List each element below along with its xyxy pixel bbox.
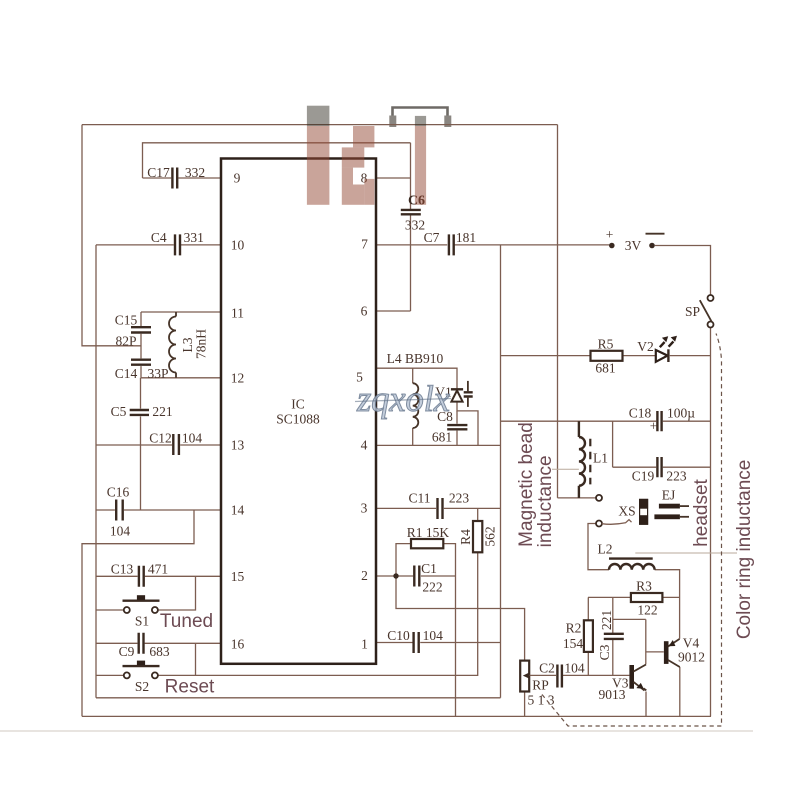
varicap V1 BB910 — [435, 381, 472, 407]
wire V4 base link — [646, 651, 664, 653]
capacitor C12 — [149, 430, 202, 455]
svg-text:C9: C9 — [119, 644, 135, 659]
svg-text:683: 683 — [149, 644, 170, 659]
watermark KT pink blocks — [307, 106, 426, 205]
wire pin15 C13 — [96, 575, 221, 577]
capacitor C4 — [151, 230, 204, 255]
wire x557 rail antenna line down to L1 bottom — [557, 125, 559, 498]
svg-text:1: 1 — [361, 636, 368, 651]
svg-text:S2: S2 — [135, 679, 149, 694]
wire pin2 to C1 — [376, 575, 456, 577]
svg-text:223: 223 — [449, 491, 470, 506]
battery 3V — [606, 227, 665, 253]
wire pin6 — [376, 310, 411, 312]
wire pin10 to C4 — [96, 244, 221, 246]
wire pin2 node down to RP top — [396, 576, 525, 661]
wire pin11 — [141, 311, 221, 313]
svg-text:14: 14 — [231, 503, 245, 518]
wire L1 bottom to XS tip — [558, 497, 597, 499]
node pin2 junction dot — [393, 573, 398, 578]
svg-text:7: 7 — [361, 237, 368, 252]
wire C8 stems — [456, 411, 458, 446]
wire pin16 C9 — [96, 642, 221, 644]
wire C18 line — [501, 420, 712, 422]
svg-text:33P: 33P — [147, 366, 168, 381]
resistor R4 — [458, 521, 498, 552]
capacitor C1 — [414, 561, 442, 595]
svg-text:C1: C1 — [421, 561, 437, 576]
wire C3 to V3 collector link — [613, 618, 646, 620]
capacitor C7 — [424, 230, 477, 255]
svg-text:L2: L2 — [598, 542, 613, 557]
svg-text:C4: C4 — [151, 230, 167, 245]
svg-text:EJ: EJ — [662, 488, 676, 503]
wire RP wiper to C2 — [532, 674, 630, 676]
capacitor C17 — [147, 165, 205, 189]
svg-text:V4: V4 — [683, 636, 700, 651]
svg-text:R5: R5 — [598, 337, 614, 352]
switch S1 — [123, 595, 160, 628]
svg-text:+: + — [650, 419, 658, 434]
watermark zqxolx — [355, 379, 451, 420]
svg-text:C17: C17 — [147, 165, 170, 180]
wire pin13 C12 — [96, 444, 221, 446]
resistor R5 — [591, 337, 623, 376]
capacitor C19 — [632, 457, 687, 483]
wire L1 top stem — [578, 421, 580, 424]
svg-text:104: 104 — [423, 628, 444, 643]
resistor R3 — [631, 579, 663, 618]
wire L2 right to V4 emitter rail — [655, 570, 680, 639]
label color ring inductance — [635, 460, 755, 640]
wire pin14 ground link — [82, 510, 194, 716]
svg-text:C5: C5 — [111, 404, 127, 419]
svg-text:Color ring inductance: Color ring inductance — [734, 460, 755, 640]
transistor V3 9013 — [599, 665, 647, 702]
capacitor C5 — [111, 404, 173, 419]
wire top loop pin9 over IC to C6 — [143, 143, 411, 178]
wire bottom jumper y698 to x500 rail — [96, 697, 501, 699]
magnetic bead inductor L1 — [579, 421, 608, 498]
wire C18/C19 left link — [612, 421, 614, 467]
svg-text:headset: headset — [691, 478, 712, 546]
svg-text:681: 681 — [432, 430, 452, 445]
svg-text:C19: C19 — [632, 468, 655, 483]
svg-text:122: 122 — [637, 603, 657, 618]
inductor L3 — [169, 312, 209, 378]
wire R2 top stem — [587, 597, 589, 620]
dashed gang link RP to SP — [542, 334, 722, 727]
wire S1 link vertical — [158, 576, 196, 610]
svg-text:471: 471 — [148, 562, 168, 577]
capacitor C13 — [111, 562, 168, 587]
svg-text:222: 222 — [422, 580, 442, 595]
svg-text:11: 11 — [231, 306, 244, 321]
svg-text:221: 221 — [599, 610, 614, 630]
svg-text:4: 4 — [361, 438, 368, 453]
wire R5 to V2 — [623, 355, 656, 357]
wire R3 left node — [588, 596, 631, 598]
wire tank vertical x141 C15/C14 — [140, 312, 142, 378]
resistor R1 — [407, 525, 450, 548]
wire C5 chain x140.5 pin12 to pin14 — [140, 378, 142, 510]
transistor V4 9012 — [664, 636, 705, 667]
wire C6 vertical lower stem to pin6 — [410, 215, 412, 311]
wire R3 right link — [662, 596, 679, 598]
svg-text:XS: XS — [618, 504, 635, 519]
wire V2 to SP rail — [670, 355, 711, 357]
wire pin4 — [376, 444, 501, 446]
inductor L4 — [387, 351, 444, 428]
svg-text:L1: L1 — [593, 451, 608, 466]
svg-text:3V: 3V — [625, 238, 642, 253]
wire varactor bottom node — [457, 402, 478, 445]
svg-text:C10: C10 — [387, 628, 410, 643]
svg-text:181: 181 — [456, 230, 476, 245]
svg-text:78nH: 78nH — [194, 329, 209, 359]
wire SP to V2 junction — [710, 327, 712, 716]
svg-text:C2: C2 — [539, 661, 555, 676]
svg-text:681: 681 — [595, 361, 615, 376]
LED V2 — [637, 336, 677, 362]
svg-text:S1: S1 — [135, 614, 149, 629]
svg-text:C18: C18 — [629, 406, 652, 421]
wire C6 vertical upper stem — [410, 143, 412, 209]
svg-text:C16: C16 — [107, 485, 130, 500]
antenna — [389, 108, 451, 128]
svg-text:12: 12 — [231, 370, 245, 385]
wire V3 emitter down — [645, 692, 647, 717]
svg-text:R1 15K: R1 15K — [407, 525, 450, 540]
wire left rail x96 from C4 down to bottom corner — [95, 245, 97, 698]
wire R4 top stub — [477, 508, 479, 521]
svg-text:154: 154 — [563, 636, 584, 651]
headset plug EJ — [654, 488, 689, 520]
capacitor C16 — [107, 485, 131, 539]
svg-text:332: 332 — [405, 218, 425, 233]
wire RP bottom stem — [524, 692, 526, 717]
svg-text:223: 223 — [666, 468, 687, 483]
capacitor C18 — [629, 406, 695, 434]
svg-text:82P: 82P — [115, 334, 136, 349]
wire R1 loop — [396, 544, 456, 717]
potentiometer RP — [520, 661, 555, 708]
wire antenna left drop to C15/C14 node — [82, 125, 141, 346]
capacitor C11 — [408, 491, 469, 520]
svg-text:2: 2 — [361, 568, 368, 583]
label magnetic bead inductance — [516, 422, 579, 547]
svg-text:V2: V2 — [637, 339, 654, 354]
wire x500 rail C7 down to bottom jumper — [500, 245, 502, 698]
capacitor C10 — [387, 628, 443, 653]
svg-text:R2: R2 — [566, 620, 582, 635]
jack XS contacts — [596, 495, 648, 527]
wire pin14 C16 — [96, 509, 221, 511]
svg-text:Reset: Reset — [165, 676, 215, 697]
svg-text:9012: 9012 — [678, 649, 705, 664]
svg-text:13: 13 — [231, 438, 245, 453]
capacitor C3 — [597, 610, 624, 661]
svg-text:SC1088: SC1088 — [276, 412, 320, 427]
capacitor C15 — [115, 313, 151, 349]
svg-text:C15: C15 — [115, 313, 138, 328]
svg-text:RP: RP — [532, 677, 549, 692]
svg-text:R3: R3 — [636, 579, 652, 594]
wire pin7 to C7 — [376, 244, 610, 246]
wire pin12 — [141, 377, 221, 379]
svg-text:5 1 3: 5 1 3 — [528, 692, 555, 707]
inductor L2 — [598, 542, 655, 570]
wire S2 left — [96, 674, 124, 676]
svg-text:10: 10 — [231, 238, 245, 253]
svg-text:16: 16 — [231, 636, 245, 651]
svg-text:104: 104 — [110, 524, 131, 539]
capacitor C9 — [119, 633, 170, 659]
svg-text:Tuned: Tuned — [160, 611, 213, 632]
svg-text:IC: IC — [291, 397, 305, 412]
wire C19 line — [613, 466, 711, 468]
IC U1 SC1088 — [221, 159, 376, 664]
wire V4 collector down — [679, 667, 681, 716]
svg-text:331: 331 — [184, 230, 204, 245]
wire S1 left — [96, 609, 124, 611]
svg-text:+: + — [606, 227, 614, 242]
switch SP — [685, 295, 714, 328]
svg-text:9013: 9013 — [599, 687, 626, 702]
wire R2 bottom stem — [587, 652, 589, 675]
svg-text:6: 6 — [361, 304, 368, 319]
svg-text:15: 15 — [231, 569, 245, 584]
capacitor C2 — [539, 661, 585, 688]
svg-text:C14: C14 — [115, 366, 138, 381]
svg-text:221: 221 — [152, 404, 172, 419]
wire pin5 to varactor — [376, 368, 457, 388]
svg-text:C3: C3 — [597, 644, 612, 660]
resistor R2 — [563, 620, 593, 652]
svg-text:104: 104 — [564, 661, 585, 676]
svg-text:332: 332 — [185, 165, 205, 180]
capacitor C14 — [115, 360, 169, 381]
svg-text:SP: SP — [685, 304, 700, 319]
wire XS lower contact to L2 — [588, 524, 609, 570]
wire S2 vertical link — [195, 643, 197, 675]
wire pin3 C11 — [376, 507, 501, 509]
svg-text:9: 9 — [234, 171, 241, 186]
wire C3 top stem — [612, 597, 614, 633]
wire pin1 C10 — [376, 642, 501, 644]
wire R5 branch — [501, 355, 591, 357]
wire V3 collector vertical — [645, 619, 647, 664]
wire L4 stems — [412, 368, 414, 445]
capacitor C6 — [401, 194, 425, 233]
wire antenna top line — [82, 124, 558, 126]
capacitor C8 — [432, 409, 468, 445]
wire pin9 to C17 — [143, 177, 222, 179]
svg-text:C13: C13 — [111, 562, 134, 577]
svg-text:C12: C12 — [149, 430, 172, 445]
wire pin8 — [376, 177, 411, 179]
svg-text:C7: C7 — [424, 230, 440, 245]
switch S2 — [123, 661, 160, 694]
svg-text:104: 104 — [182, 430, 203, 445]
svg-text:R4: R4 — [458, 529, 473, 545]
svg-text:3: 3 — [361, 501, 368, 516]
wire S2 right long bus to R4 bottom corner — [158, 552, 478, 675]
svg-text:C11: C11 — [408, 491, 430, 506]
svg-text:Magnetic bead: Magnetic bead — [516, 422, 537, 547]
wire battery right to SP — [655, 246, 711, 296]
svg-text:562: 562 — [483, 526, 498, 546]
wire C3 bottom stem — [612, 640, 614, 676]
wire ground bus bottom — [82, 715, 711, 717]
faint page line — [0, 730, 753, 732]
svg-text:L4 BB910: L4 BB910 — [387, 351, 444, 366]
svg-text:100µ: 100µ — [667, 406, 695, 421]
